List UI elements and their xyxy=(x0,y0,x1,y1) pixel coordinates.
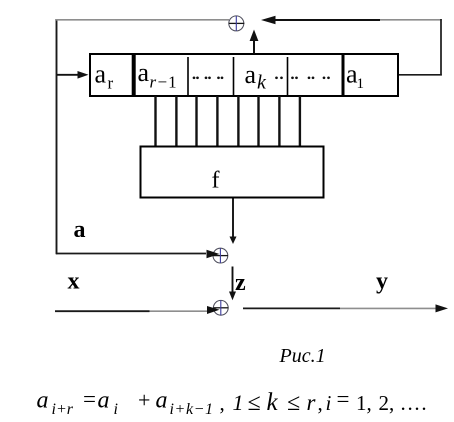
dots group 1 xyxy=(193,76,224,79)
wire: top feedback horizontal gray segment (right) xyxy=(380,19,442,21)
svg-text:i: i xyxy=(326,391,332,415)
svg-text:i+r: i+r xyxy=(52,401,74,418)
svg-text:y: y xyxy=(376,269,388,295)
tap wire 7 xyxy=(278,96,280,146)
wire: top feedback horizontal gray segment (left of XOR1) xyxy=(56,19,229,21)
formula a_i+r = a_i + a_i+k-1 , 1 &#8804; k &#8804; r, i = 1, 2, ... xyxy=(37,387,429,418)
svg-text:1: 1 xyxy=(357,76,365,92)
tap wire 5 xyxy=(237,96,239,146)
svg-text:a: a xyxy=(37,388,49,414)
svg-text:2,: 2, xyxy=(379,391,395,415)
svg-text:=: = xyxy=(83,387,96,412)
wire: left feedback vertical xyxy=(56,19,58,254)
svg-text:,: , xyxy=(220,391,225,415)
svg-text:,: , xyxy=(318,391,323,415)
tap wire 3 xyxy=(195,96,197,146)
svg-text:+: + xyxy=(138,388,150,413)
svg-text:a: a xyxy=(138,58,150,87)
svg-text:=: = xyxy=(337,387,350,412)
register box xyxy=(90,54,398,96)
svg-text:k: k xyxy=(257,72,267,94)
cell divider thin 1 xyxy=(187,57,189,95)
svg-text:r: r xyxy=(108,74,114,93)
svg-text:k: k xyxy=(267,389,279,416)
tap wire 6 xyxy=(257,96,259,146)
svg-text:a: a xyxy=(98,388,110,414)
svg-text:1,: 1, xyxy=(356,391,372,415)
svg-text:f: f xyxy=(212,168,220,194)
cell divider thick before a_1 xyxy=(342,53,345,97)
cell divider thin 3 xyxy=(287,57,289,95)
svg-text:i+k−1: i+k−1 xyxy=(170,401,214,418)
tap wire 2 xyxy=(175,96,177,146)
wire: input arrow into register xyxy=(57,71,89,79)
wire: register top to XOR1 (up arrow) xyxy=(250,30,259,54)
svg-text:a: a xyxy=(245,60,257,89)
wire: right feedback vertical xyxy=(440,19,442,76)
cell divider thin 2 xyxy=(233,57,235,95)
wire: f output down arrow xyxy=(230,199,237,245)
svg-text:a: a xyxy=(74,217,86,243)
svg-text:Рис.1: Рис.1 xyxy=(279,345,326,367)
wire: z arrow from XOR2 to XOR3 xyxy=(229,267,236,301)
svg-text:≤: ≤ xyxy=(287,390,300,416)
svg-text:i: i xyxy=(114,401,118,418)
wire: register output to right vertical xyxy=(398,74,442,76)
svg-text:r: r xyxy=(150,73,157,92)
dots group 2 xyxy=(275,76,283,79)
XOR adder node 3 xyxy=(213,300,228,315)
XOR adder node 2 xyxy=(213,248,228,263)
svg-text:a: a xyxy=(95,60,107,89)
svg-text:≤: ≤ xyxy=(248,390,261,416)
wire: y output arrow from XOR3 xyxy=(243,304,448,312)
wire: x input line with arrow into XOR3 xyxy=(55,306,220,314)
wire: a feedback line into XOR2 with arrow xyxy=(56,250,220,258)
tap wire 8 xyxy=(299,96,301,146)
function block f xyxy=(141,147,324,198)
svg-text:a: a xyxy=(156,388,168,414)
tap wire 4 xyxy=(216,96,218,146)
svg-text:1: 1 xyxy=(233,390,244,415)
cell divider thick between a_r and a_r-1 xyxy=(132,53,136,97)
XOR adder node 1 (top) xyxy=(229,16,245,31)
dots group 3 xyxy=(291,76,330,79)
svg-text:r: r xyxy=(307,390,317,415)
svg-text:....: .... xyxy=(401,391,429,415)
svg-text:x: x xyxy=(68,268,80,294)
svg-text:−1: −1 xyxy=(158,73,178,92)
tap wire 1 xyxy=(154,96,156,146)
svg-text:z: z xyxy=(235,270,246,296)
wire: top feedback arrow into XOR1 (black) xyxy=(261,16,380,25)
